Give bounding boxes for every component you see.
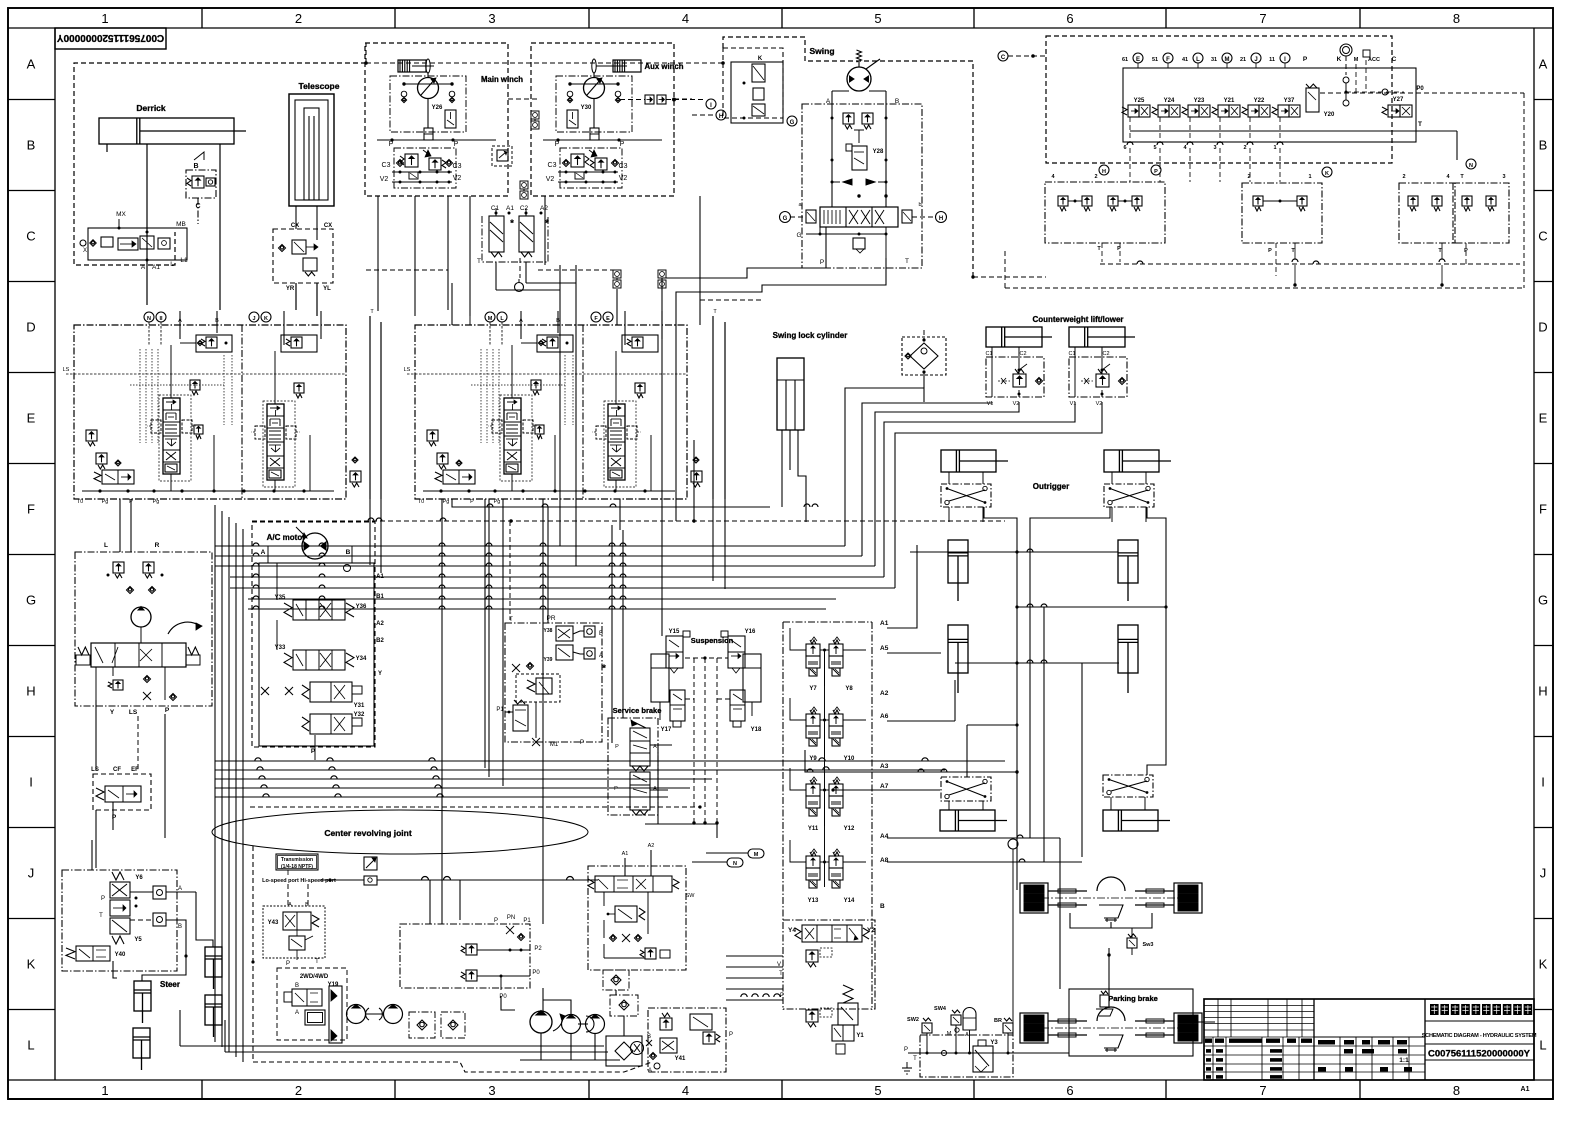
- priority unloader valve: [93, 774, 151, 810]
- brake relief 1: [806, 950, 818, 962]
- circled port G: [787, 116, 797, 126]
- svg-text:Derrick: Derrick: [136, 103, 166, 113]
- svg-text:P2: P2: [534, 946, 542, 952]
- steer valve lower components: [113, 680, 123, 690]
- svg-text:Pg: Pg: [494, 499, 501, 505]
- steering pump module enclosure: [75, 552, 212, 706]
- transfer directional valve: [595, 876, 672, 892]
- pilot ports A B: [584, 626, 595, 637]
- svg-text:J: J: [1254, 57, 1257, 63]
- svg-text:T: T: [905, 258, 909, 265]
- wire service brake drop: [657, 745, 659, 824]
- telescope cylinder: [289, 94, 334, 206]
- rear axle: [1020, 1013, 1048, 1043]
- rotation arrow: [168, 622, 200, 634]
- bank 2nd section top relief: [622, 335, 658, 352]
- bank work port risers: [511, 345, 513, 398]
- svg-text:C: C: [1001, 55, 1006, 61]
- main winch brake cylinder: [398, 60, 426, 72]
- svg-text:B: B: [178, 924, 182, 930]
- valve Y1: [832, 1025, 854, 1041]
- svg-text:C00756111520000000Y: C00756111520000000Y: [57, 32, 165, 43]
- pump suction lines: [540, 1033, 542, 1060]
- pilot valve Y11: [810, 780, 816, 784]
- svg-text:H: H: [1538, 684, 1547, 699]
- bank lines to rail: [170, 474, 172, 491]
- svg-text:61: 61: [1122, 57, 1128, 63]
- cab pilot module enclosure: [505, 623, 602, 742]
- valve Y19: [292, 989, 322, 1006]
- wires transfer module: [624, 858, 626, 876]
- steer cylinders: [134, 981, 151, 1011]
- outrigger jack cylinder 2: [1118, 540, 1138, 583]
- svg-text:CX: CX: [291, 223, 299, 229]
- svg-text:Y20: Y20: [1324, 112, 1335, 118]
- svg-text:A5: A5: [880, 645, 889, 652]
- subtitle SCHEMATIC DIAGRAM - HYDRAULIC SYSTEM: [1425, 1043, 1534, 1045]
- svg-text:SW4: SW4: [934, 1006, 947, 1012]
- brake supply module: [920, 1035, 1013, 1077]
- swing valve module box: [802, 104, 922, 268]
- transfer reducing valve: [615, 906, 637, 922]
- bank main spool 2: [267, 404, 284, 480]
- svg-text:11: 11: [1269, 57, 1275, 63]
- valve Y40: [76, 946, 110, 961]
- svg-text:C2: C2: [1102, 351, 1109, 357]
- quick couplers on pilot line: [645, 95, 654, 104]
- svg-text:2WD/4WD: 2WD/4WD: [300, 974, 329, 980]
- svg-text:Y: Y: [110, 709, 115, 716]
- svg-text:YL: YL: [323, 286, 331, 292]
- pilot valve Y13: [810, 852, 816, 856]
- svg-text:E: E: [606, 316, 610, 322]
- svg-text:G: G: [1538, 593, 1548, 608]
- wire dashed pilot trunk: [250, 806, 700, 808]
- bank work port risers: [170, 345, 172, 398]
- circled ports G H swing valve: [780, 212, 791, 223]
- svg-text:A2: A2: [376, 621, 384, 627]
- svg-text:C00756111520000000Y: C00756111520000000Y: [1428, 1049, 1531, 1060]
- wires AC module: [276, 563, 278, 600]
- bank right small relief: [350, 471, 361, 482]
- svg-text:21: 21: [1240, 57, 1246, 63]
- svg-text:D: D: [1538, 320, 1547, 335]
- svg-text:B: B: [295, 983, 299, 989]
- svg-text:Transmission: Transmission: [281, 857, 313, 863]
- rear axle enclosure: [1069, 989, 1193, 1056]
- svg-text:P0: P0: [1416, 86, 1424, 92]
- pump relief valves: [113, 562, 124, 573]
- K pilot block: [723, 48, 783, 118]
- svg-text:2: 2: [1243, 145, 1246, 151]
- svg-text:A7: A7: [880, 783, 889, 790]
- svg-text:V2: V2: [1013, 401, 1020, 407]
- wires steer pump: [95, 667, 97, 700]
- bottom number band: [8, 1079, 1553, 1081]
- title block outline: [1204, 999, 1534, 1080]
- svg-text:I: I: [29, 775, 33, 790]
- svg-text:T: T: [99, 913, 103, 919]
- svg-text:Y38: Y38: [544, 628, 553, 634]
- outrigger front-right lock valve: [1104, 484, 1154, 507]
- main winch motor: [426, 59, 430, 73]
- svg-text:LS: LS: [91, 767, 99, 773]
- svg-text:SW2: SW2: [907, 1017, 919, 1023]
- svg-text:6: 6: [1066, 1083, 1073, 1098]
- svg-text:Y34: Y34: [356, 656, 367, 662]
- transmission dashed enclosure: [252, 846, 254, 1062]
- filter check block 3: [409, 1012, 435, 1038]
- svg-text:B: B: [27, 138, 36, 153]
- svg-text:A: A: [295, 1010, 299, 1016]
- svg-text:K: K: [1337, 56, 1342, 63]
- parking brake chamber: [1100, 995, 1109, 1007]
- svg-text:A2: A2: [880, 690, 889, 697]
- svg-text:C3: C3: [619, 163, 628, 170]
- svg-text:Y12: Y12: [844, 826, 855, 832]
- AC fan module enclosure: [252, 522, 375, 747]
- 2WD 4WD box: [277, 968, 347, 1040]
- pilot solenoid valves Y25 Y24 Y23 Y21 Y22 Y37: [1122, 107, 1127, 115]
- svg-text:A2: A2: [648, 843, 655, 849]
- svg-text:3: 3: [488, 1083, 495, 1098]
- svg-text:*: *: [510, 218, 514, 228]
- svg-text:MB: MB: [176, 221, 186, 228]
- brake supply wires: [908, 1052, 1069, 1054]
- wire verticals center: [444, 499, 499, 806]
- svg-text:L1: L1: [180, 257, 188, 264]
- bank LS line: [66, 373, 346, 375]
- outrigger jack cylinder 4: [1118, 625, 1138, 673]
- svg-text:Y35: Y35: [275, 595, 286, 601]
- svg-text:Y33: Y33: [275, 645, 286, 651]
- svg-text:4: 4: [682, 11, 689, 26]
- section port circles JK: [249, 312, 259, 322]
- svg-text:3: 3: [1213, 145, 1216, 151]
- bank main spool 1: [504, 398, 521, 474]
- svg-text:H: H: [939, 216, 943, 222]
- svg-text:M: M: [754, 852, 759, 858]
- svg-text:Pg: Pg: [153, 499, 160, 505]
- accumulator: [963, 1008, 976, 1031]
- svg-text:1: 1: [1273, 145, 1276, 151]
- svg-text:P: P: [1154, 169, 1158, 175]
- svg-text:J: J: [1540, 866, 1547, 881]
- svg-text:2: 2: [295, 11, 302, 26]
- aux winch brake cylinder: [613, 60, 641, 72]
- oil cooler with fan: [606, 1036, 642, 1066]
- svg-text:C2: C2: [520, 205, 529, 212]
- steer module enclosure: [62, 870, 177, 971]
- center revolving joint ellipse: [212, 810, 588, 854]
- svg-text:Y15: Y15: [669, 629, 680, 635]
- svg-text:F: F: [1166, 57, 1170, 63]
- transfer check row: [610, 935, 617, 942]
- svg-text:C: C: [1538, 229, 1547, 244]
- svg-text:P: P: [614, 786, 618, 792]
- barcode box with part number: [55, 28, 166, 49]
- svg-text:C2: C2: [1019, 351, 1026, 357]
- outrigger front-left lock valve: [941, 484, 991, 507]
- transmission pumps: [347, 1005, 366, 1024]
- svg-text:A: A: [653, 786, 657, 792]
- swing motor: [857, 50, 862, 62]
- svg-text:T0: T0: [418, 499, 424, 505]
- shift valve Y43 block: [263, 906, 325, 958]
- wire brake valves: [495, 208, 497, 216]
- valve Y28: [852, 146, 867, 170]
- bank inlet relief valves: [86, 430, 97, 441]
- left letter band: [54, 28, 56, 1080]
- svg-text:K: K: [27, 957, 36, 972]
- svg-text:A1: A1: [880, 620, 889, 627]
- svg-text:MX: MX: [116, 211, 126, 218]
- svg-text:P: P: [389, 141, 394, 148]
- pilot valve bank enclosure: [1046, 36, 1392, 163]
- svg-text:P0: P0: [532, 970, 540, 976]
- svg-text:N: N: [733, 861, 737, 867]
- wire derrick cyl to valves: [146, 144, 148, 305]
- outrigger front-left cylinder: [941, 450, 996, 472]
- service brake valve: [608, 718, 658, 815]
- svg-text:A3: A3: [880, 763, 889, 770]
- telescope valve block: [273, 229, 333, 283]
- svg-text:A4: A4: [880, 833, 889, 840]
- svg-text:C1: C1: [1068, 351, 1075, 357]
- spring relief big: [843, 985, 853, 1003]
- svg-text:A1: A1: [622, 851, 629, 857]
- svg-text:Parking brake: Parking brake: [1108, 994, 1158, 1003]
- shift pressure reducing valve: [289, 936, 305, 950]
- section port circles FE: [591, 312, 601, 322]
- bank pilot dotted verticals: [480, 349, 482, 443]
- svg-text:A: A: [141, 264, 146, 271]
- svg-text:K: K: [264, 316, 268, 322]
- main winch enclosure: [365, 43, 508, 196]
- derrick group enclosure: [74, 63, 366, 265]
- wire sw3 to rear axle: [1108, 992, 1110, 1008]
- svg-text:B: B: [599, 631, 603, 637]
- svg-text:L: L: [1539, 1037, 1546, 1052]
- svg-text:5: 5: [874, 1083, 881, 1098]
- svg-text:A1: A1: [1521, 1086, 1530, 1093]
- remote control module 3: [1399, 183, 1455, 243]
- steer priority main valve: [91, 643, 186, 667]
- svg-text:P: P: [820, 259, 824, 266]
- svg-text:C3: C3: [548, 162, 557, 169]
- svg-text:M1: M1: [550, 742, 559, 748]
- pressure switch SW2: [922, 1023, 932, 1033]
- svg-text:LS: LS: [63, 367, 70, 373]
- pilot reducing valve: [516, 674, 560, 702]
- svg-text:M: M: [947, 1031, 952, 1037]
- wire trunk mid bundle horizontal: [215, 545, 845, 547]
- spool1 aux relief: [190, 380, 200, 390]
- svg-text:J: J: [28, 866, 35, 881]
- revision table: [1313, 999, 1315, 1080]
- main pump: [530, 1011, 552, 1033]
- front axle: [1020, 883, 1048, 913]
- svg-text:Y13: Y13: [808, 898, 819, 904]
- svg-text:1: 1: [101, 11, 108, 26]
- svg-text:V2: V2: [619, 175, 628, 182]
- svg-text:P: P: [615, 744, 619, 750]
- wire trunk lower bundle horizontal: [215, 760, 1005, 762]
- wire telescope to manifold: [295, 283, 297, 310]
- svg-text:G: G: [796, 232, 801, 239]
- svg-text:K: K: [758, 56, 763, 62]
- svg-text:G: G: [790, 120, 795, 126]
- bank top relief: [196, 335, 232, 352]
- right letter band: [1533, 28, 1535, 1080]
- svg-text:A1: A1: [506, 205, 514, 212]
- svg-text:A: A: [261, 549, 266, 556]
- svg-text:A: A: [27, 56, 36, 71]
- svg-text:C1: C1: [985, 351, 992, 357]
- pilot valve Y9: [810, 710, 816, 714]
- wire trunk vertical left bundle: [214, 505, 216, 1042]
- svg-text:(1/4-18 NPTF): (1/4-18 NPTF): [281, 864, 313, 870]
- svg-text:Y17: Y17: [661, 727, 672, 733]
- wire top dashed to circled C: [998, 51, 1008, 61]
- svg-text:I: I: [1541, 775, 1545, 790]
- wire verticals center real: [441, 499, 443, 924]
- svg-text:CX: CX: [324, 223, 332, 229]
- svg-text:B: B: [305, 902, 309, 908]
- wire bank T continuations: [369, 499, 371, 565]
- svg-text:M: M: [488, 316, 493, 322]
- svg-text:8: 8: [1453, 11, 1460, 26]
- svg-text:B: B: [1539, 138, 1548, 153]
- svg-text:M: M: [1354, 57, 1359, 63]
- svg-text:P: P: [729, 1032, 733, 1038]
- svg-text:A: A: [178, 886, 182, 892]
- svg-text:P: P: [620, 141, 625, 148]
- valve Y20: [1306, 88, 1319, 112]
- svg-text:6: 6: [1066, 11, 1073, 26]
- filter check block: [902, 337, 946, 375]
- svg-text:C: C: [1392, 56, 1397, 63]
- svg-text:1:1: 1:1: [1399, 1057, 1409, 1064]
- svg-text:51: 51: [1152, 57, 1158, 63]
- svg-text:5: 5: [874, 11, 881, 26]
- svg-text:A: A: [1539, 56, 1548, 71]
- svg-text:Y6: Y6: [135, 875, 143, 881]
- wires service brake: [650, 744, 672, 746]
- wire pair link: [820, 649, 829, 651]
- svg-text:*: *: [602, 663, 606, 673]
- valve Y33 Y34: [293, 650, 345, 670]
- svg-text:LS: LS: [129, 709, 138, 716]
- svg-text:Center revolving joint: Center revolving joint: [324, 828, 412, 838]
- svg-text:Swing: Swing: [809, 46, 834, 56]
- svg-text:4: 4: [682, 1083, 689, 1098]
- wire bottom distribution: [429, 880, 431, 924]
- bank T risers: [369, 316, 371, 499]
- svg-text:Y26: Y26: [432, 105, 443, 111]
- svg-text:Swing lock cylinder: Swing lock cylinder: [773, 331, 848, 340]
- svg-text:A6: A6: [880, 713, 889, 720]
- bank inlet relief valves: [427, 430, 438, 441]
- svg-text:Outrigger: Outrigger: [1033, 482, 1069, 491]
- svg-text:Y21: Y21: [1224, 98, 1235, 104]
- transfer control module: [588, 866, 686, 970]
- svg-text:2: 2: [1094, 174, 1097, 180]
- svg-text:X: X: [83, 248, 87, 254]
- spool1 aux relief: [531, 380, 541, 390]
- svg-text:K: K: [1539, 957, 1548, 972]
- svg-text:P: P: [580, 740, 584, 746]
- svg-text:41: 41: [1182, 57, 1188, 63]
- svg-text:Y39: Y39: [544, 657, 553, 663]
- pill ports M N: [727, 858, 743, 867]
- svg-text:Pg: Pg: [443, 499, 450, 505]
- svg-text:D: D: [26, 320, 35, 335]
- outrigger front-right cylinder: [1104, 450, 1159, 472]
- wire cascade to counterweight: [845, 388, 924, 546]
- svg-text:T: T: [477, 258, 481, 265]
- suspension accumulator cylinders: [651, 654, 669, 702]
- svg-text:Lo-speed port Hi-speed port: Lo-speed port Hi-speed port: [262, 878, 336, 884]
- svg-text:A: A: [599, 653, 603, 659]
- wire manifold circles to winches: [469, 316, 471, 325]
- svg-text:2: 2: [1402, 174, 1405, 180]
- svg-text:1: 1: [101, 1083, 108, 1098]
- svg-text:P: P: [904, 1047, 908, 1053]
- wire pair link: [820, 861, 829, 863]
- drain port symbol: [515, 283, 524, 292]
- suspension dashed drop lines: [693, 658, 695, 823]
- pilot valve Y14: [833, 852, 839, 856]
- circled ports I H: [706, 99, 716, 109]
- svg-text:E: E: [27, 411, 36, 426]
- svg-text:L: L: [27, 1037, 34, 1052]
- svg-text:P: P: [101, 896, 105, 902]
- svg-text:SCHEMATIC DIAGRAM - HYDRAULIC: SCHEMATIC DIAGRAM - HYDRAULIC SYSTEM: [1422, 1033, 1537, 1039]
- bank pilot dotted verticals: [139, 349, 141, 443]
- pilot valve Y8: [833, 640, 839, 644]
- relief valve B/C block: [186, 170, 216, 198]
- svg-text:Y5: Y5: [134, 937, 142, 943]
- svg-text:N: N: [1469, 163, 1473, 169]
- svg-text:Y41: Y41: [675, 1056, 686, 1062]
- svg-text:T: T: [1418, 121, 1422, 128]
- svg-text:A: A: [288, 902, 292, 908]
- svg-text:C: C: [26, 229, 35, 244]
- orifice check symbols between winches: [531, 111, 539, 119]
- tank symbol: [906, 1062, 908, 1068]
- pilot bank lower bus: [1100, 263, 1520, 265]
- svg-text:T: T: [913, 1056, 917, 1062]
- port circle above: [1008, 839, 1018, 849]
- pressure switch Sw3: [1127, 938, 1137, 948]
- bank main spool 1: [163, 398, 180, 474]
- svg-text:b: b: [918, 202, 921, 208]
- svg-text:3: 3: [1502, 174, 1505, 180]
- svg-text:P: P: [454, 141, 459, 148]
- svg-text:SW: SW: [686, 893, 696, 899]
- middle title table: [1314, 1036, 1425, 1038]
- svg-text:Y27: Y27: [1393, 97, 1404, 103]
- valve Y38: [556, 626, 573, 641]
- counterweight holding valve 2: [1069, 357, 1127, 397]
- tandem pumps: [562, 1015, 581, 1034]
- company name 中联重科股份有限公司: [1425, 1020, 1534, 1022]
- svg-text:8: 8: [1453, 1083, 1460, 1098]
- bank bottom rail: [82, 490, 334, 492]
- svg-text:P: P: [1117, 246, 1121, 252]
- svg-text:7: 7: [1259, 1083, 1266, 1098]
